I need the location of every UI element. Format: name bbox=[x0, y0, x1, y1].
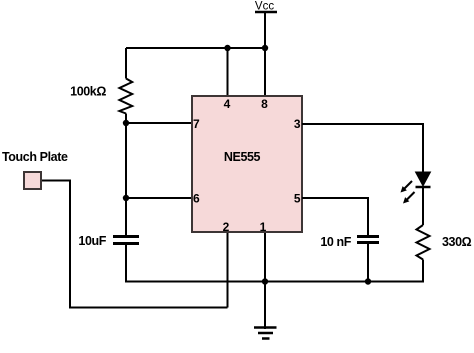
capacitor 10nF bbox=[357, 235, 379, 238]
IC U1 NE555 bbox=[192, 96, 302, 232]
svg-text:Vcc: Vcc bbox=[255, 1, 274, 13]
wire bottom rail bbox=[125, 281, 424, 283]
ground bbox=[254, 326, 277, 329]
svg-text:2: 2 bbox=[223, 220, 230, 234]
resistor 100kOhm bbox=[119, 79, 132, 114]
node bottom rail junction pin 1 bbox=[262, 278, 268, 284]
wire pin 4 drop bbox=[227, 48, 229, 95]
resistor 330Ohm bbox=[417, 225, 430, 260]
svg-text:330Ω: 330Ω bbox=[442, 235, 472, 249]
LED D1 bbox=[416, 172, 431, 186]
wire left rail to capacitor C1 bbox=[125, 198, 127, 235]
wire top rail to resistor R1 bbox=[125, 48, 127, 79]
svg-text:100kΩ: 100kΩ bbox=[70, 85, 106, 99]
svg-text:NE555: NE555 bbox=[224, 150, 261, 164]
svg-text:5: 5 bbox=[294, 192, 301, 206]
capacitor 10uF bbox=[113, 235, 139, 238]
node bottom rail junction C2 bbox=[365, 278, 371, 284]
wire top rail bbox=[126, 47, 265, 49]
touch plate pad bbox=[24, 172, 41, 189]
svg-text:8: 8 bbox=[261, 97, 268, 111]
wire capacitor C2 to bottom rail bbox=[367, 244, 369, 282]
wire pin 6 bbox=[126, 197, 193, 199]
wire pin 7 bbox=[126, 122, 193, 124]
wire pin 5 to capacitor C2 bbox=[302, 198, 368, 235]
svg-text:7: 7 bbox=[193, 117, 200, 131]
wire touch plate to pin 2 bbox=[42, 181, 228, 308]
wire pin 3 to LED bbox=[302, 124, 423, 172]
LED arrow 2 bbox=[407, 192, 415, 200]
wire resistor R2 to bottom rail bbox=[422, 260, 424, 283]
wire LED to resistor R2 bbox=[422, 187, 424, 225]
node pin 7 junction bbox=[123, 120, 129, 126]
wire left rail mid bbox=[125, 123, 127, 198]
wire resistor to pin7 node bbox=[125, 114, 127, 124]
wire pin 1 to ground bbox=[264, 233, 266, 329]
node pin 6 junction bbox=[123, 195, 129, 201]
node junction top rail / pin 4 bbox=[224, 45, 230, 51]
LED arrow 1 bbox=[404, 181, 412, 189]
svg-text:Touch Plate: Touch Plate bbox=[2, 150, 68, 164]
wire Vcc down to pin 8 bbox=[264, 12, 266, 95]
wire capacitor C1 to bottom rail bbox=[125, 245, 127, 283]
svg-text:10 nF: 10 nF bbox=[320, 235, 351, 249]
svg-text:10uF: 10uF bbox=[78, 234, 106, 248]
svg-text:3: 3 bbox=[294, 117, 301, 131]
node junction top rail / Vcc bbox=[262, 45, 268, 51]
wire pin 2 bbox=[227, 233, 229, 308]
svg-text:4: 4 bbox=[224, 97, 231, 111]
svg-text:1: 1 bbox=[260, 220, 267, 234]
svg-text:6: 6 bbox=[193, 192, 200, 206]
power Vcc bar bbox=[255, 11, 277, 14]
